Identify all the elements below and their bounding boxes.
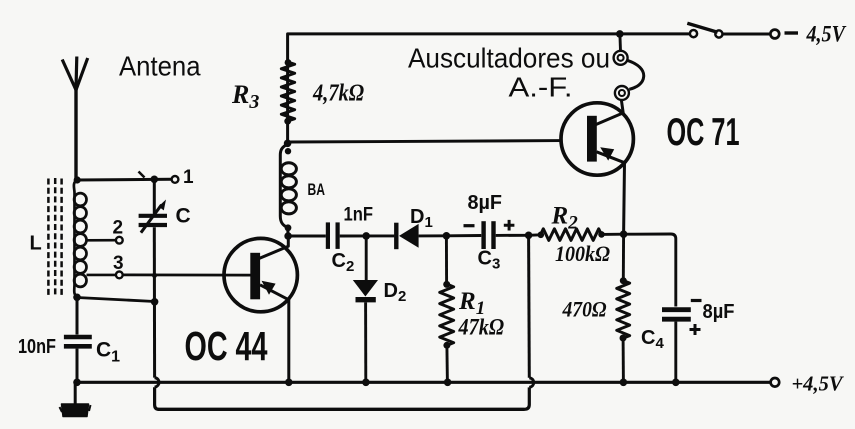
hop over bus A [155,378,159,388]
headphone jack terminals [614,51,628,65]
wire node to C3 [446,234,481,237]
svg-text:C2: C2 [332,250,355,275]
wire OC71 base line [288,141,562,142]
minus sign C4 [691,299,702,302]
svg-text:1nF: 1nF [344,204,374,226]
variable capacitor C branch from node [153,179,156,213]
switch [690,30,697,37]
wire R2 to emitter node [602,233,624,236]
svg-text:OC 44: OC 44 [185,323,268,369]
wire to C4 corner [624,234,676,307]
wire R3 top corner / top rail [288,34,690,143]
wire terminal3 to OC44 base [123,273,251,276]
svg-text:D1: D1 [410,206,433,231]
node dot on cap branch [151,298,159,306]
svg-text:10nF: 10nF [18,336,56,358]
wire antenna/coil-top to terminal 1 [77,178,171,182]
diode D2 branch [365,236,368,281]
svg-text:47kΩ: 47kΩ [458,315,504,340]
svg-text:4,7kΩ: 4,7kΩ [312,81,364,107]
node R3 bottom / BA top / OC71 base junction [284,140,292,148]
capacitor C1 bottom plate [64,344,92,349]
minus sign C3 [464,224,475,227]
terminal 1 [172,176,179,183]
node coil top junction dot [74,176,81,183]
junction small dot at terminal3 line crossing [152,273,157,278]
wire C3 to R2 node [496,234,529,237]
tick mark on wire [139,172,145,178]
ground [62,404,89,417]
svg-text:+4,5V: +4,5V [792,372,845,396]
wire C1 to bus A [76,349,79,383]
node C3+/R2/busB junction dot [525,232,533,240]
svg-text:Antena: Antena [119,51,201,82]
plus sign C4 [690,324,701,335]
svg-text:8µF: 8µF [703,301,735,323]
wire switch to -4.5V terminal [723,33,771,36]
hop of bus B over bus A [529,378,533,388]
capacitor C3 [481,221,485,249]
svg-text:OC 71: OC 71 [667,111,740,154]
svg-text:C1: C1 [96,339,120,366]
svg-text:BA: BA [308,181,326,199]
antenna [62,57,87,179]
wire cap C down to bus B [153,227,156,377]
wire C2 to D1 [340,234,395,237]
svg-text:3: 3 [113,253,124,274]
svg-text:4,5V: 4,5V [806,22,847,47]
ground wire [74,382,77,404]
svg-text:1: 1 [183,167,194,188]
tap 2 wire [87,239,116,242]
bus B (lower return wire) [158,408,525,411]
node OC44 emitter / bus A dot [285,379,293,387]
wire coil bottom down to C1 [76,297,79,334]
svg-text:C: C [176,205,191,228]
svg-text:R2: R2 [551,203,579,234]
terminal -4.5V [770,30,779,39]
wire D1 to node [419,234,447,237]
svg-text:C4: C4 [641,327,664,352]
tap 3 wire [87,274,116,277]
svg-text:470Ω: 470Ω [562,297,607,322]
resistor R2 [529,233,541,236]
terminal 2 [116,237,123,244]
node coil bottom dot [73,294,81,302]
svg-text:8µF: 8µF [468,192,503,214]
svg-text:R3: R3 [231,80,259,113]
minus dash [785,31,799,34]
capacitor C4 (8uF) [662,307,691,312]
terminal +4.5V [771,378,780,387]
node BA/OC44 collector/C2 junction dot [284,232,292,240]
svg-text:L: L [30,233,42,255]
transistor OC44 [224,236,297,382]
node OC71 emitter/R2/470 junction dot [620,230,628,238]
wire coil bottom to cap branch [77,298,155,302]
transistor OC71 [561,100,633,234]
svg-text:C3: C3 [478,248,501,273]
node dot C1/busA [73,379,81,387]
capacitor C arrow [141,205,162,233]
capacitor C2 [326,222,330,249]
resistor R3 [281,62,294,121]
svg-text:2: 2 [113,218,124,239]
capacitor C top plate [139,214,167,218]
plus sign C3 [504,220,515,231]
wire to C2 [288,235,326,238]
node R1/D1/C3 junction dot [443,232,451,240]
inductor L [74,180,87,297]
node tuning-cap top junction dot [151,176,159,184]
resistor R1 branch [445,236,448,284]
svg-text:Auscultadores ou: Auscultadores ou [408,43,610,74]
inductor L core dashed lines [48,178,61,297]
capacitor C bottom plate [139,223,167,227]
svg-text:A.-F.: A.-F. [509,72,573,103]
wire down and corner into bus B [155,387,159,409]
node D2 junction dot [362,232,370,240]
terminal 3 [116,272,123,279]
curved wire between jacks [627,60,644,89]
capacitor C1 top plate [64,335,92,339]
svg-text:D2: D2 [384,280,407,305]
resistor 470 ohm branch [622,234,625,280]
wire top rail to upper jack [618,34,621,51]
svg-text:100kΩ: 100kΩ [555,241,610,266]
diode D1 [394,223,398,250]
wire bus B up to C3+/R2 node [527,237,531,378]
inductor BA [280,144,296,236]
bus A (+4.5V rail) [77,381,770,384]
